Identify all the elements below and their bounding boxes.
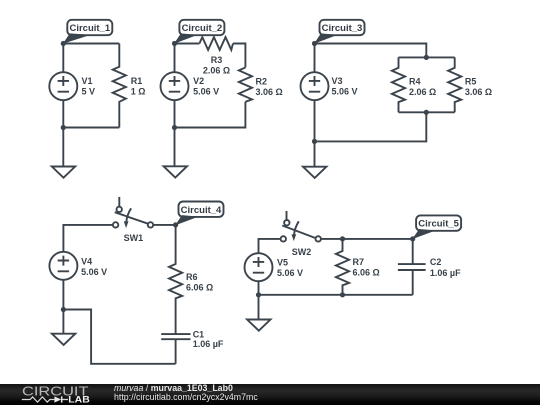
label callout Circuit_2 — [174, 20, 224, 44]
label callout Circuit_4 — [175, 202, 223, 226]
svg-text:V2: V2 — [193, 76, 204, 86]
node: circuit 3 top — [312, 41, 317, 46]
node: circuit 3 parallel bottom junction — [424, 110, 429, 115]
node: circuit 1 top — [61, 41, 66, 46]
wire: circuit 5 bottom — [259, 294, 413, 296]
node: circuit 5 R7 bottom junction — [340, 292, 345, 297]
node: circuit 5 ground junction — [256, 292, 261, 297]
resistor R3 (horizontal) — [199, 37, 233, 50]
svg-text:V1: V1 — [82, 76, 93, 86]
node: circuit 2 ground junction — [172, 125, 177, 130]
svg-text:C2: C2 — [430, 257, 442, 267]
ground (circuit 4) — [52, 310, 75, 345]
wire: circuit 5 node to capacitor — [343, 239, 413, 264]
label callout Circuit_1 — [63, 20, 113, 44]
capacitor C2 — [398, 264, 426, 295]
label callout Circuit_3 — [314, 20, 365, 44]
svg-text:R7: R7 — [353, 257, 365, 267]
svg-text:R6: R6 — [186, 272, 198, 282]
voltage source V2 — [161, 44, 189, 128]
svg-text:Circuit_3: Circuit_3 — [322, 23, 363, 34]
voltage source V5 — [245, 253, 273, 295]
wire: circuit 1 bottom — [63, 127, 119, 129]
svg-text:Circuit_1: Circuit_1 — [69, 23, 110, 34]
svg-text:R4: R4 — [409, 77, 421, 87]
label callout Circuit_5 — [412, 215, 461, 239]
voltage source V3 — [301, 44, 329, 142]
wire: circuit 4 bottom return — [63, 310, 175, 364]
svg-text:1 Ω: 1 Ω — [131, 86, 146, 96]
ground (circuit 1) — [52, 128, 75, 178]
svg-text:Circuit_5: Circuit_5 — [418, 219, 459, 230]
capacitor C1 — [161, 334, 190, 364]
svg-text:http://circuitlab.com/cn2ycx2v: http://circuitlab.com/cn2ycx2v4m7mc — [114, 392, 258, 402]
svg-text:5.06 V: 5.06 V — [193, 86, 219, 96]
wire: circuit 3 parallel bottom bar — [399, 111, 455, 113]
wire: circuit 3 parallel top bar — [399, 56, 455, 58]
svg-text:1.06 µF: 1.06 µF — [430, 268, 461, 278]
svg-text:6.06 Ω: 6.06 Ω — [186, 283, 213, 293]
ground (circuit 2) — [164, 128, 187, 178]
resistor R1 — [113, 44, 126, 128]
svg-text:5 V: 5 V — [82, 86, 96, 96]
resistor R2 — [239, 68, 252, 102]
svg-text:1.06 µF: 1.06 µF — [193, 339, 224, 349]
wire: switch SW2 to node — [321, 238, 343, 240]
node: circuit 5 R7 top junction — [340, 236, 345, 241]
svg-text:R1: R1 — [131, 76, 143, 86]
node: circuit 3 ground junction — [312, 139, 317, 144]
voltage source V4 — [49, 252, 77, 310]
node: circuit 1 ground junction — [61, 125, 66, 130]
wire: circuit 2 top left — [175, 43, 200, 45]
switch SW2 — [281, 211, 321, 242]
wire: circuit 5 source to switch — [259, 239, 281, 253]
ground (circuit 3) — [303, 141, 326, 178]
svg-text:5.06 V: 5.06 V — [277, 268, 303, 278]
wire: switch SW1 to node — [153, 224, 175, 226]
footer bar — [0, 384, 540, 405]
svg-text:6.06 Ω: 6.06 Ω — [353, 267, 380, 277]
resistor R5 — [448, 57, 461, 112]
svg-text:V5: V5 — [277, 258, 288, 268]
resistor R6 — [169, 225, 182, 334]
svg-text:V3: V3 — [332, 76, 343, 86]
wire: circuit 2 top right — [233, 44, 245, 68]
node: circuit 2 top — [172, 41, 177, 46]
svg-text:SW2: SW2 — [292, 247, 312, 257]
svg-text:5.06 V: 5.06 V — [81, 267, 107, 277]
svg-text:R3: R3 — [211, 55, 223, 65]
wire: circuit 2 bottom — [175, 102, 246, 128]
CircuitLab logo — [22, 385, 90, 405]
node: circuit 4 switch output — [173, 222, 178, 227]
svg-text:V4: V4 — [81, 257, 92, 267]
node: circuit 3 parallel top junction — [424, 55, 429, 60]
svg-text:R5: R5 — [465, 77, 477, 87]
svg-text:5.06 V: 5.06 V — [332, 86, 358, 96]
svg-text:2.06 Ω: 2.06 Ω — [409, 87, 436, 97]
svg-text:2.06 Ω: 2.06 Ω — [203, 66, 230, 76]
resistor R4 — [392, 57, 405, 112]
wire: circuit 3 top — [315, 44, 427, 58]
ground (circuit 5) — [247, 295, 270, 331]
svg-text:LAB: LAB — [68, 395, 90, 405]
wire: circuit 4 source to switch — [63, 225, 113, 252]
svg-text:R2: R2 — [256, 76, 268, 86]
svg-text:C1: C1 — [193, 329, 205, 339]
voltage source V1 — [49, 44, 77, 128]
node: circuit 5 capacitor top junction — [410, 236, 415, 241]
resistor R7 — [336, 239, 349, 295]
switch SW1 — [113, 197, 153, 228]
node: circuit 4 ground junction — [61, 307, 66, 312]
svg-text:SW1: SW1 — [124, 233, 144, 243]
wire: circuit 3 bottom — [315, 112, 427, 141]
svg-text:Circuit_4: Circuit_4 — [181, 205, 222, 216]
svg-text:3.06 Ω: 3.06 Ω — [465, 87, 492, 97]
wire: circuit 1 top — [63, 43, 119, 45]
svg-text:3.06 Ω: 3.06 Ω — [256, 87, 283, 97]
svg-text:Circuit_2: Circuit_2 — [182, 23, 223, 34]
